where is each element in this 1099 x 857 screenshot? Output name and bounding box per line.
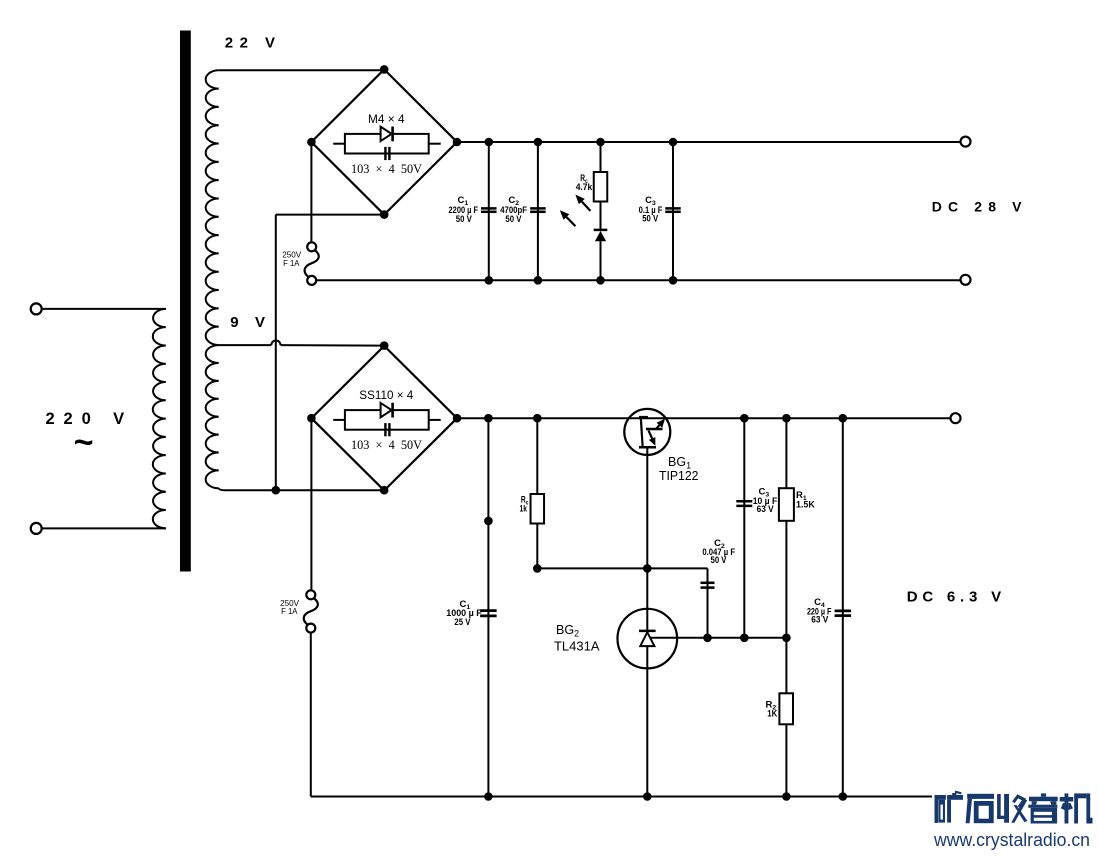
svg-text:50 V: 50 V xyxy=(711,555,728,566)
svg-text:F 1A: F 1A xyxy=(283,258,300,268)
svg-text:1.5K: 1.5K xyxy=(796,500,815,511)
svg-text:9 V: 9 V xyxy=(230,314,265,331)
svg-text:103 × 4 50V: 103 × 4 50V xyxy=(351,161,423,176)
svg-text:1K: 1K xyxy=(767,708,777,719)
svg-text:SS110 × 4: SS110 × 4 xyxy=(359,388,413,402)
svg-text:50 V: 50 V xyxy=(456,214,473,225)
svg-text:M4 × 4: M4 × 4 xyxy=(368,112,405,126)
svg-text:TL431A: TL431A xyxy=(554,640,600,654)
svg-text:4.7k: 4.7k xyxy=(576,182,593,193)
svg-text:50 V: 50 V xyxy=(505,214,522,225)
svg-text:F 1A: F 1A xyxy=(281,606,298,616)
svg-text:25 V: 25 V xyxy=(454,617,471,628)
svg-text:103 × 4 50V: 103 × 4 50V xyxy=(351,437,423,452)
svg-text:www.crystalradio.cn: www.crystalradio.cn xyxy=(933,829,1090,850)
svg-text:~: ~ xyxy=(74,424,94,462)
svg-text:63 V: 63 V xyxy=(757,504,775,515)
svg-text:50 V: 50 V xyxy=(642,214,659,225)
svg-text:1k: 1k xyxy=(520,504,528,515)
svg-text:63 V: 63 V xyxy=(811,614,829,625)
svg-text:TIP122: TIP122 xyxy=(659,469,699,483)
